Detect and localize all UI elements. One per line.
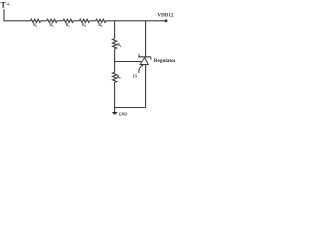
svg-text:+: + — [6, 2, 10, 8]
resistor R2 — [47, 19, 57, 22]
svg-text:5: 5 — [101, 25, 103, 28]
wire bottom rail — [115, 107, 146, 109]
svg-text:VDD12: VDD12 — [158, 13, 174, 18]
wire R3-R4 — [73, 20, 79, 22]
wire Rb to bottom rail — [114, 82, 116, 107]
svg-text:b: b — [119, 77, 121, 80]
svg-text:4: 4 — [85, 25, 87, 28]
wire left divider branch upper — [114, 21, 116, 39]
wire R1-R2 — [41, 20, 47, 22]
regulator U1 cathode bar — [138, 56, 151, 58]
regulator U1 cathode bar right hook — [150, 57, 152, 60]
label R3 — [66, 23, 71, 28]
node VDD12 dot — [165, 19, 168, 22]
resistor R4 — [79, 19, 89, 22]
regulator U1 anode triangle — [140, 58, 148, 65]
regulator U1 reference lead pin 15 — [139, 65, 143, 73]
wire regulator branch from top rail — [145, 21, 147, 57]
svg-text:2: 2 — [52, 25, 54, 28]
svg-text:a: a — [120, 45, 122, 48]
svg-text:3: 3 — [68, 25, 70, 28]
wire between Ra and Rb — [114, 49, 116, 72]
wire regulator anode to bottom rail — [145, 65, 147, 108]
wire R5 to VDD12 node — [106, 20, 166, 22]
wire from T+ down and right to R1 — [4, 9, 31, 21]
svg-text:15: 15 — [133, 74, 138, 79]
label Rb — [117, 75, 122, 80]
svg-text:GND: GND — [119, 112, 127, 116]
wire to ground — [114, 108, 116, 113]
resistor Ra — [113, 39, 117, 49]
label R5 — [98, 23, 103, 28]
resistor R3 — [63, 19, 73, 22]
svg-text:Regulator: Regulator — [154, 58, 175, 64]
wire R4-R5 — [90, 20, 96, 22]
wire R2-R3 — [57, 20, 63, 22]
node T+ terminal label — [1, 0, 11, 9]
regulator U1 reference arrowhead — [141, 65, 144, 67]
label R1 — [33, 23, 38, 28]
regulator U1 cathode bar left tick — [138, 54, 141, 57]
wire divider tap to regulator — [115, 61, 142, 63]
resistor R5 — [96, 19, 106, 22]
ground symbol — [112, 112, 118, 115]
label R4 — [82, 23, 87, 28]
resistor Rb — [113, 72, 117, 82]
svg-text:1: 1 — [36, 25, 38, 28]
label R2 — [50, 23, 55, 28]
label Ra — [117, 43, 122, 48]
resistor R1 — [31, 19, 41, 22]
